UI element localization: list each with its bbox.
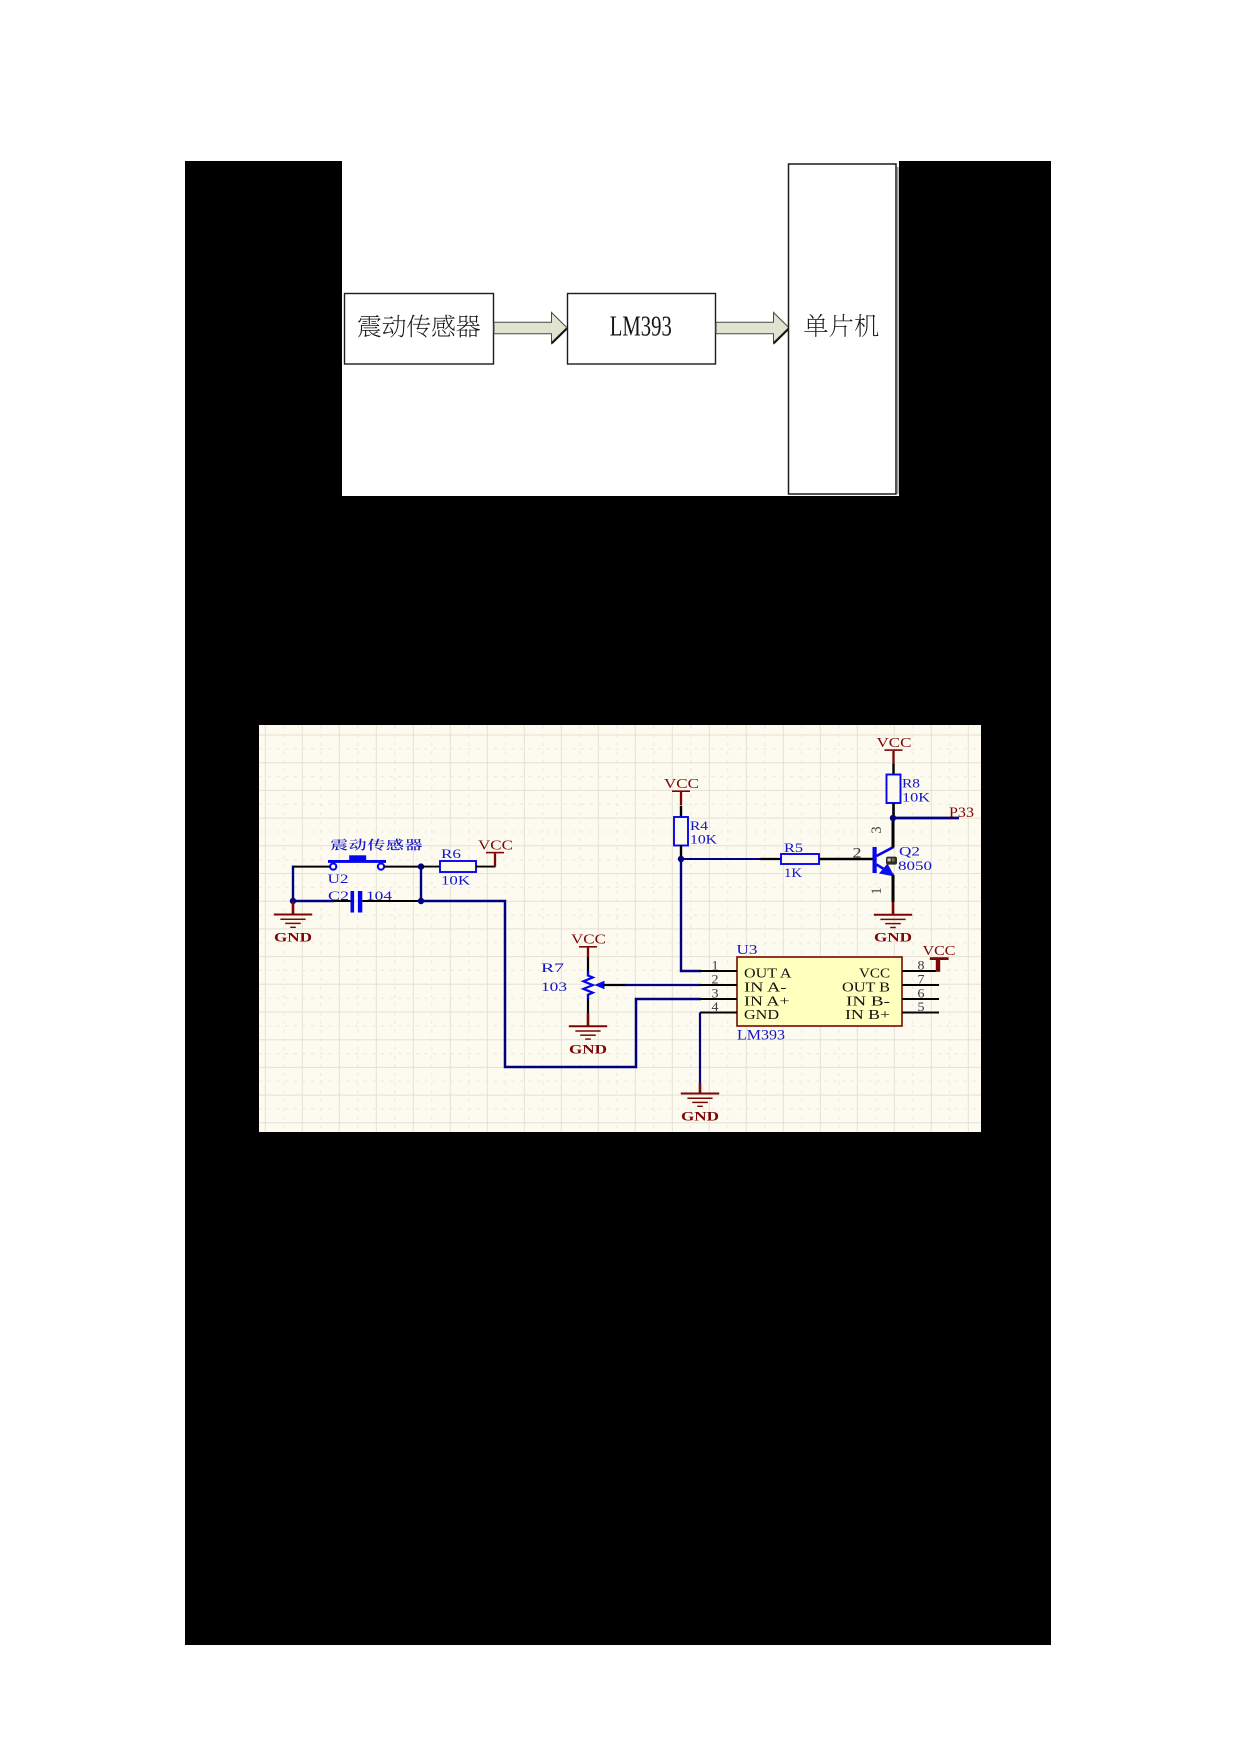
svg-text:VCC: VCC (859, 965, 890, 980)
svg-text:GND: GND (274, 930, 312, 945)
svg-text:R8: R8 (902, 776, 920, 791)
svg-text:OUT B: OUT B (842, 979, 890, 994)
svg-text:GND: GND (681, 1109, 719, 1124)
svg-text:3: 3 (869, 826, 885, 833)
ground symbol GND (U3) (681, 1083, 719, 1124)
white block-diagram band (342, 161, 899, 496)
wire: junction to R5 (681, 858, 760, 860)
svg-text:LM393: LM393 (610, 312, 672, 343)
svg-text:R6: R6 (441, 846, 462, 861)
svg-text:VCC: VCC (478, 839, 513, 854)
wire: U2 right pin (384, 866, 421, 868)
U3 pin 8 (VCC) (859, 958, 936, 981)
svg-text:10K: 10K (441, 873, 471, 888)
schematic sheet background (259, 725, 981, 1132)
svg-text:1K: 1K (784, 865, 803, 880)
ground symbol GND (sensor) (274, 901, 312, 945)
transistor Q2 (873, 847, 895, 877)
potentiometer R7 (583, 958, 626, 1014)
U3 pin 4 (GND) (700, 999, 779, 1022)
resistor R8 (887, 764, 901, 819)
power symbol VCC (U3 pin 8) (923, 944, 956, 972)
svg-text:104: 104 (366, 888, 393, 903)
svg-text:4: 4 (712, 999, 720, 1014)
node: junction at switch output (418, 863, 424, 869)
resistor R4 (674, 806, 688, 859)
node: junction at C2 right (418, 898, 424, 904)
block: MCU (单片机) box (789, 164, 898, 494)
svg-text:IN B+: IN B+ (845, 1007, 890, 1022)
wire: U3 GND pin down (699, 1013, 701, 1084)
svg-text:103: 103 (541, 979, 567, 994)
resistor R6 (421, 861, 496, 872)
svg-text:GND: GND (874, 930, 912, 945)
svg-text:P33: P33 (949, 805, 974, 821)
U3 pin 2 (IN A-) (700, 972, 787, 995)
power symbol VCC (R4) (664, 777, 699, 805)
block: vibration sensor box (345, 294, 494, 365)
svg-text:VCC: VCC (923, 944, 956, 959)
node: collector junction (890, 815, 896, 821)
svg-text:VCC: VCC (877, 736, 912, 751)
ground symbol GND (Q2) (874, 902, 912, 945)
svg-text:R7: R7 (541, 960, 565, 975)
capacitor C2 (293, 891, 419, 913)
power symbol VCC (R6) (478, 839, 513, 867)
black panel backdrop (185, 161, 1051, 1645)
block: LM393 box (568, 294, 716, 365)
wire: R7 wiper to IN A- (625, 984, 701, 986)
svg-text:VCC: VCC (571, 933, 606, 948)
svg-text:10K: 10K (690, 832, 718, 847)
arrow: sensor to LM393 (494, 313, 567, 344)
wire: C2 node to IN A+ (long path) (421, 901, 701, 1067)
svg-text:1: 1 (869, 887, 885, 894)
svg-text:10K: 10K (902, 790, 931, 805)
svg-text:LM393: LM393 (737, 1028, 785, 1044)
svg-text:U3: U3 (737, 943, 758, 958)
svg-text:1: 1 (712, 958, 719, 973)
label 震动传感器 (sensor title) (331, 839, 422, 851)
svg-text:8050: 8050 (898, 858, 932, 873)
power symbol VCC (R8) (877, 736, 912, 765)
ground symbol GND (R7) (569, 1013, 607, 1056)
svg-text:R5: R5 (784, 840, 803, 855)
svg-text:Q2: Q2 (899, 844, 920, 859)
svg-text:VCC: VCC (664, 777, 699, 792)
resistor R5 (760, 854, 873, 864)
wire: junction vertical (420, 867, 422, 901)
wire: U2 left pin (292, 866, 330, 868)
svg-text:GND: GND (744, 1007, 779, 1022)
node: junction left bottom (290, 898, 296, 904)
svg-text:8: 8 (918, 958, 925, 973)
Q2 collector wire (892, 818, 895, 848)
wire: left vertical to GND node (292, 866, 294, 902)
U3 pin 6 (IN B-) (846, 986, 939, 1009)
svg-text:U2: U2 (328, 871, 349, 886)
Q2 emitter wire (892, 875, 895, 902)
U3 pin 7 (OUT B) (842, 972, 939, 995)
wire: net P33 (893, 817, 959, 820)
op-amp/comparator U3 LM393 body (737, 957, 902, 1026)
U3 pin 3 (IN A+) (700, 986, 790, 1009)
svg-text:GND: GND (569, 1041, 607, 1056)
U3 pin 1 (OUT A) (700, 958, 792, 981)
svg-text:2: 2 (853, 846, 862, 862)
node: R4 output junction (678, 856, 684, 862)
arrow: LM393 to MCU (716, 313, 789, 344)
svg-text:7: 7 (918, 972, 926, 987)
wire: junction down to OUT A (681, 859, 701, 971)
U3 pin 5 (IN B+) (845, 999, 939, 1022)
vibration sensor U2 (switch symbol) (328, 855, 386, 869)
svg-text:IN A-: IN A- (744, 979, 787, 994)
Q2 part marker glyph (886, 857, 897, 865)
power symbol VCC (R7) (571, 933, 606, 958)
svg-text:OUT A: OUT A (744, 965, 792, 980)
svg-text:C2: C2 (328, 888, 349, 903)
svg-text:5: 5 (918, 999, 925, 1014)
svg-text:2: 2 (712, 972, 719, 987)
